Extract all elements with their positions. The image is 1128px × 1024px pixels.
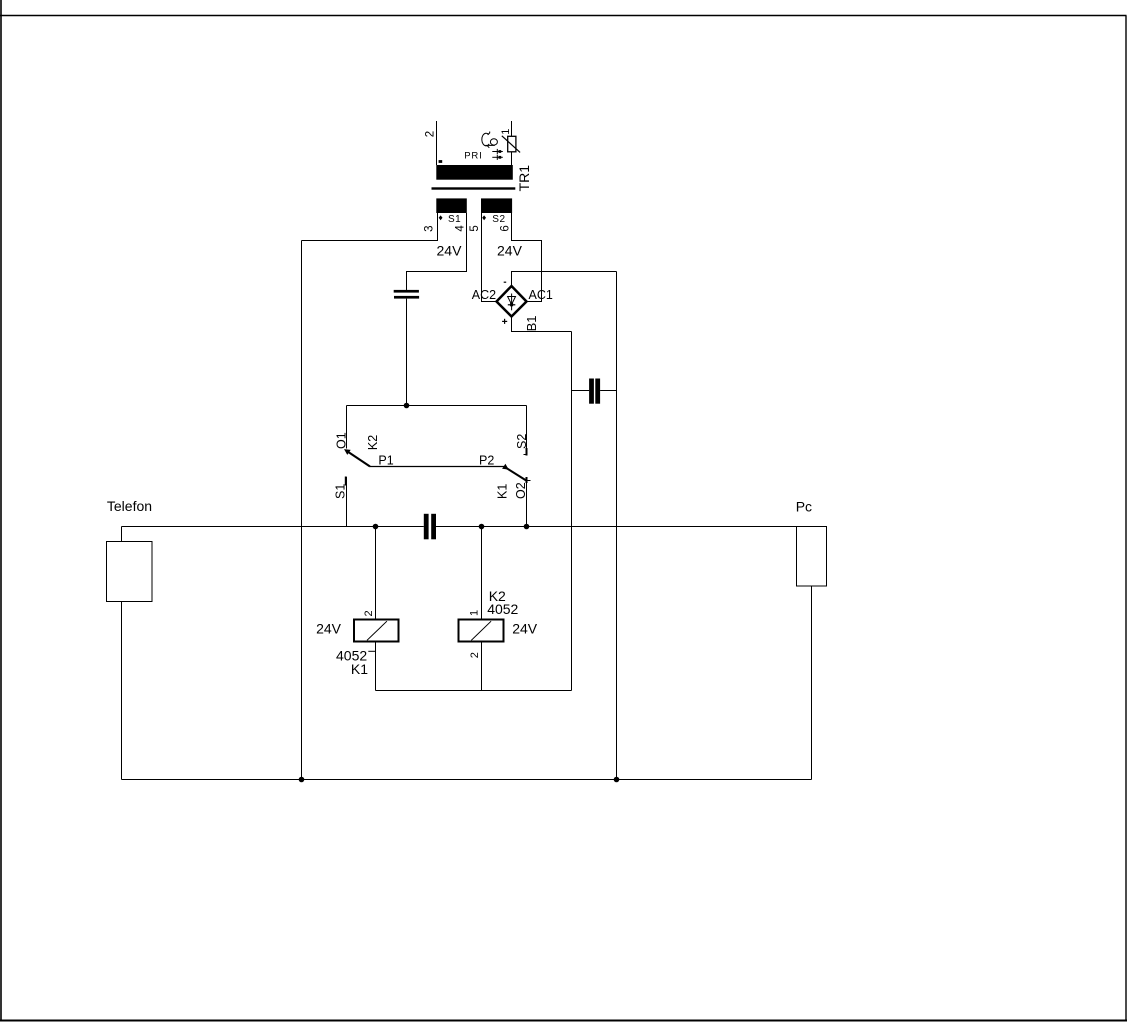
capacitor (smoothing) — [589, 379, 600, 404]
wire minus rail — [616, 272, 618, 780]
junction — [404, 403, 410, 409]
svg-text:K1: K1 — [496, 484, 510, 499]
wire S1 left side pin 3 — [302, 213, 438, 241]
svg-text:1: 1 — [468, 610, 480, 616]
svg-text:P2: P2 — [479, 453, 494, 467]
wire S1 right side pin 4 — [407, 213, 467, 290]
wire bottom return — [122, 779, 812, 781]
svg-text:2: 2 — [363, 610, 375, 616]
wire S2 left side pin 5 — [482, 213, 497, 302]
svg-text:PRI: PRI — [464, 150, 482, 161]
relay coil K1 — [316, 610, 398, 676]
svg-text:Pc: Pc — [796, 498, 812, 514]
wire to smoothing capacitor left — [572, 390, 590, 392]
svg-text:K1: K1 — [351, 661, 368, 677]
svg-text:2: 2 — [469, 652, 481, 658]
svg-text:24V: 24V — [497, 243, 523, 259]
transformer TR1 primary winding PRI — [436, 150, 513, 179]
svg-text:4052: 4052 — [487, 601, 518, 617]
relay contact K2 — [333, 406, 393, 527]
svg-text:24V: 24V — [512, 620, 538, 636]
svg-text:4: 4 — [455, 225, 467, 232]
svg-text:24V: 24V — [316, 620, 342, 636]
transformer TR1 secondary winding S2 — [481, 198, 512, 225]
svg-text:K2: K2 — [366, 435, 380, 450]
svg-text:Telefon: Telefon — [107, 498, 152, 514]
wire relay coils common bottom — [376, 690, 572, 692]
wire switch top bus — [347, 405, 527, 407]
svg-text:S1: S1 — [333, 484, 347, 499]
wire coil K1 bottom — [375, 642, 377, 691]
svg-text:TR1: TR1 — [516, 165, 532, 192]
capacitor (series with S1) — [394, 290, 419, 299]
relay contact K1 — [479, 406, 531, 527]
connector Pc — [796, 498, 827, 779]
svg-text:2: 2 — [425, 131, 437, 137]
svg-text:AC2: AC2 — [472, 288, 496, 302]
svg-text:S1: S1 — [448, 214, 461, 225]
wire bridge plus output — [512, 317, 572, 332]
wire telephone line left — [122, 526, 424, 528]
relay coil K2 — [459, 588, 538, 658]
wire P1 to P2 — [370, 466, 504, 468]
thermal arrow 2 — [492, 155, 503, 160]
svg-text:3: 3 — [424, 225, 436, 231]
transformer TR1 core — [432, 187, 516, 189]
label Cp squiggle — [482, 132, 498, 148]
svg-text:24V: 24V — [437, 243, 463, 259]
junction — [524, 524, 530, 530]
wire capacitor to switch node — [406, 299, 408, 406]
wire bridge minus output — [512, 272, 617, 287]
svg-text:5: 5 — [469, 225, 481, 231]
junction — [614, 777, 620, 783]
transformer TR1 secondary winding S1 — [436, 198, 467, 225]
thermal arrow 1 — [492, 149, 503, 154]
junction — [373, 524, 379, 530]
bridge rectifier B1 — [472, 282, 553, 331]
wire to relay coil K1 — [375, 527, 377, 620]
svg-text:S2: S2 — [492, 214, 505, 225]
varistor 1 — [500, 121, 520, 165]
capacitor (line coupling) — [424, 514, 436, 540]
svg-text:O2: O2 — [514, 482, 528, 499]
svg-text:S2: S2 — [515, 434, 529, 449]
svg-text:6: 6 — [500, 225, 512, 231]
svg-text:O1: O1 — [334, 432, 348, 449]
svg-text:B1: B1 — [524, 315, 539, 331]
wire to relay coil K2 — [481, 527, 483, 620]
wire S2 right side pin 6 — [512, 213, 542, 302]
wire smoothing capacitor right — [600, 390, 616, 392]
wire coil K2 bottom — [481, 642, 483, 691]
junction — [299, 777, 305, 783]
svg-text:1: 1 — [500, 129, 512, 135]
connector Telefon — [107, 498, 153, 780]
svg-text:AC1: AC1 — [529, 288, 553, 302]
wire plus rail — [571, 332, 573, 691]
wire left rail — [301, 241, 303, 780]
wire telephone line right — [436, 526, 797, 528]
pin 2 — [425, 121, 437, 165]
svg-text:P1: P1 — [378, 453, 393, 467]
junction — [479, 524, 485, 530]
